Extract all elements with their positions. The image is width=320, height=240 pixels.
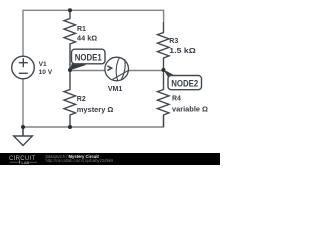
svg-text:variable Ω: variable Ω [172,107,208,114]
svg-text:VM1: VM1 [108,86,123,93]
svg-text:mystery Ω: mystery Ω [77,107,114,114]
svg-text:44 kΩ: 44 kΩ [77,36,98,43]
svg-text:1.5 kΩ: 1.5 kΩ [169,48,196,55]
node dot ground-left junction [21,125,25,129]
voltage source V1 [12,56,35,79]
svg-text:R1: R1 [77,26,86,33]
svg-text:10 V: 10 V [39,69,53,76]
svg-text:R3: R3 [169,38,178,45]
voltmeter VM1 [105,57,129,81]
svg-text:http://circuitlab.com/c/qsbaby: http://circuitlab.com/c/qsbaby22d9k6 [46,158,114,163]
wire NODE1 to VM1 [70,70,106,72]
wire bottom horizontal [22,116,164,128]
node NODE1 flag [70,49,105,70]
resistor R2 [64,70,76,127]
node NODE2 flag [163,69,201,89]
node dot NODE2 junction [162,68,166,72]
svg-text:NODE1: NODE1 [75,53,102,63]
svg-text:NODE2: NODE2 [171,79,198,89]
resistor R4 [158,70,170,127]
resistor R1 [64,10,76,70]
footer banner [0,153,220,165]
ground [14,127,33,146]
node dot top junction [68,8,72,12]
svg-text:R2: R2 [77,96,86,103]
svg-text:LAB: LAB [22,161,30,165]
footer CircuitLab logo [9,156,37,165]
wire V1 minus to ground rail [22,79,24,136]
svg-text:R4: R4 [172,96,181,103]
node dot R2 bottom junction [68,125,72,129]
wire VM1 to NODE2 [128,70,164,72]
node dot NODE1 junction [68,68,72,72]
resistor R3 [158,22,170,70]
wire top (node A to node B) [23,10,164,56]
svg-text:V1: V1 [39,61,47,68]
